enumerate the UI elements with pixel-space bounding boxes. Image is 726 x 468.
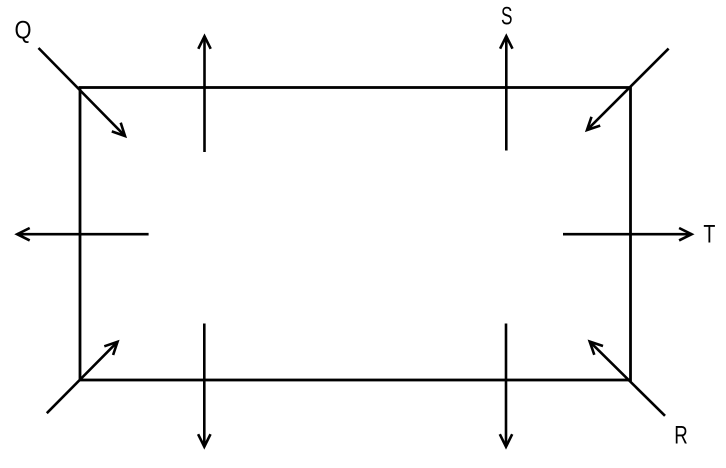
force arrow (bottom-left diagonal, pointing up-right into plate) xyxy=(47,342,118,413)
force arrow S (top edge, right, upward) xyxy=(500,36,512,150)
svg-text:S: S xyxy=(501,3,513,31)
force arrow R (bottom-right diagonal, pointing up-left into plate) xyxy=(590,342,665,416)
force arrow Q (top-left diagonal, pointing down-right into plate) xyxy=(39,48,126,136)
force arrow (top-right diagonal, pointing down-left into plate) xyxy=(587,49,669,130)
rectangular plate xyxy=(80,88,631,381)
force arrow T (right edge, pointing right) xyxy=(563,228,692,240)
svg-text:R: R xyxy=(674,422,688,450)
svg-text:Q: Q xyxy=(15,17,32,45)
downward force arrow (bottom edge, right) xyxy=(500,324,512,447)
upward force arrow (top edge, left) xyxy=(198,36,210,152)
leftward force arrow (left edge) xyxy=(17,228,148,240)
svg-text:T: T xyxy=(703,221,715,249)
downward force arrow (bottom edge, left) xyxy=(198,324,210,447)
